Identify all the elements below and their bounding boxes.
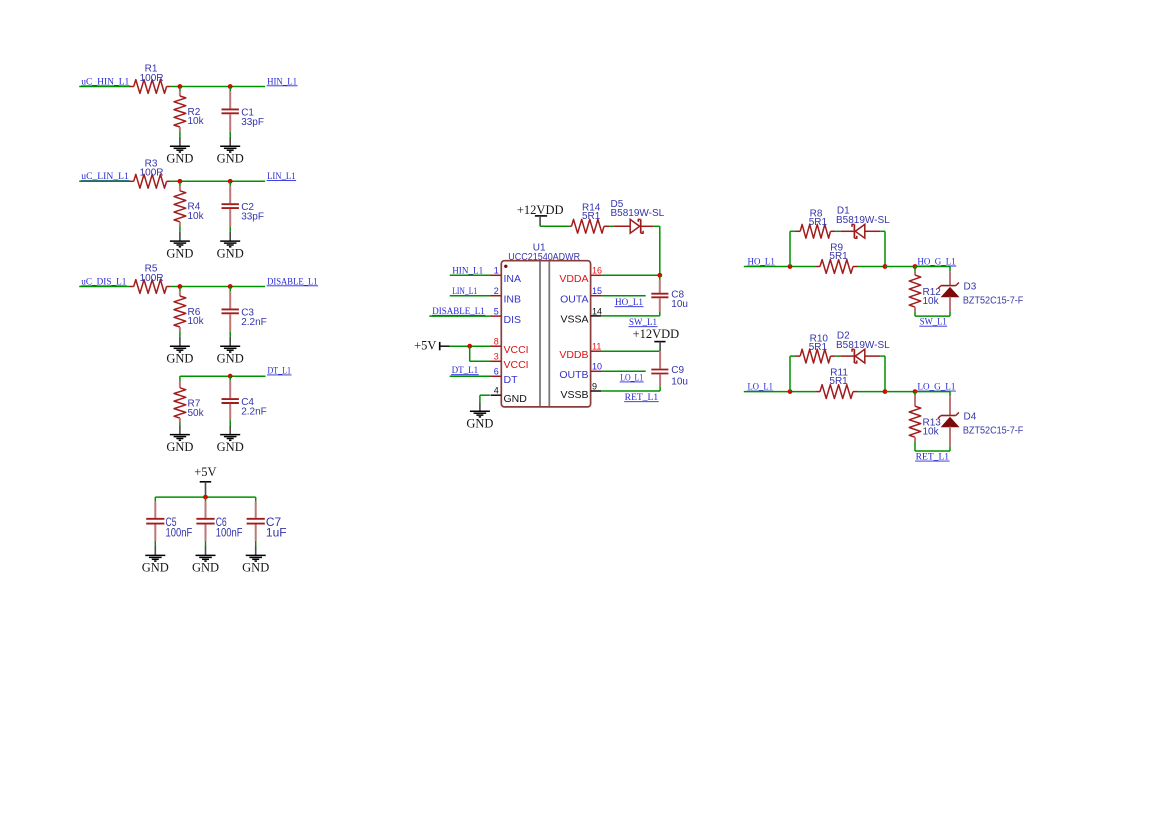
wire [479,395,481,402]
resistor R11 [815,391,820,393]
wire [885,391,915,393]
resistor R13 [914,392,916,397]
ground [170,145,190,147]
wire [601,315,660,317]
svg-text:+12VDD: +12VDD [633,327,680,341]
svg-text:INA: INA [504,273,522,285]
svg-text:GND: GND [192,561,219,575]
wire [835,355,840,357]
svg-text:UCC21540ADWR: UCC21540ADWR [508,252,580,263]
svg-text:10k: 10k [188,116,205,127]
svg-text:C9: C9 [671,365,684,376]
svg-text:15: 15 [592,286,602,296]
wire [789,356,791,392]
svg-text:GND: GND [217,352,244,366]
junction [228,179,233,184]
svg-text:6: 6 [494,367,499,377]
pin 15 OUTA [591,295,601,297]
svg-text:1uF: 1uF [266,525,287,539]
diode D5 B5819W-SL [614,225,630,227]
wire [789,231,791,266]
capacitor C4 [229,376,231,381]
ground [479,403,481,412]
svg-text:33pF: 33pF [241,117,264,128]
resistor R7 [179,376,181,381]
wire [790,230,796,232]
wire [790,355,796,357]
svg-text:1: 1 [494,266,499,276]
ground [220,240,240,242]
svg-text:14: 14 [592,306,602,316]
wire [880,230,885,232]
svg-text:100nF: 100nF [216,525,243,539]
wire [155,496,255,498]
capacitor C6 [205,497,207,502]
junction [788,264,793,269]
resistor R10 [796,355,801,357]
resistor R9 [815,266,820,268]
svg-text:5R1: 5R1 [829,376,848,387]
pin 16 VDDA [591,274,601,276]
capacitor C1 [229,87,231,92]
svg-text:GND: GND [166,352,193,366]
svg-text:11: 11 [592,342,601,352]
ground [246,554,266,556]
svg-text:GND: GND [142,561,169,575]
svg-text:3: 3 [494,352,499,362]
wire [79,286,129,288]
junction [883,264,888,269]
ground [220,145,240,147]
junction [178,284,183,289]
svg-text:100R: 100R [140,168,164,179]
wire [858,391,886,393]
junction [788,389,793,394]
wire [171,286,266,288]
svg-text:OUTA: OUTA [560,294,588,306]
svg-text:VCCI: VCCI [504,359,529,371]
svg-text:100R: 100R [140,273,164,284]
svg-text:10k: 10k [188,211,205,222]
wire [880,355,885,357]
wire [654,225,660,227]
junction [913,389,918,394]
svg-text:5R1: 5R1 [829,251,848,262]
svg-text:10: 10 [592,362,602,372]
ground [170,345,190,347]
ground [170,434,190,436]
wire [540,225,570,227]
svg-text:GND: GND [166,246,193,260]
resistor R1 [130,86,134,88]
svg-text:B5819W-SL: B5819W-SL [611,208,665,219]
junction [657,273,662,278]
capacitor C2 [229,181,231,186]
svg-text:16: 16 [592,266,602,276]
svg-text:DIS: DIS [504,314,522,326]
svg-text:100R: 100R [140,73,164,84]
resistor R2 [179,87,181,92]
junction [467,344,472,349]
svg-text:B5819W-SL: B5819W-SL [836,340,890,351]
pin 3 VCCI [491,360,502,362]
svg-text:VCCI: VCCI [504,344,529,356]
capacitor C5 [154,497,156,502]
wire [79,86,129,88]
diode D1 B5819W-SL [840,230,853,232]
wire [610,225,614,227]
wire [601,390,660,392]
pin 9 VSSB [591,390,601,392]
wire [450,375,491,377]
svg-text:10k: 10k [923,296,940,307]
wire [744,391,816,393]
wire [171,86,266,88]
pin 8 VCCI [491,345,502,347]
junction [228,374,233,379]
wire [601,295,646,297]
pin 10 OUTB [591,370,601,372]
capacitor C7 [255,497,257,502]
svg-text:VSSB: VSSB [560,389,588,401]
svg-text:GND: GND [217,440,244,454]
svg-text:INB: INB [504,294,522,306]
junction [178,179,183,184]
resistor R3 [130,180,134,182]
svg-text:100nF: 100nF [166,525,193,539]
svg-text:10u: 10u [671,299,688,310]
resistor R5 [130,286,134,288]
wire [450,295,491,297]
svg-text:GND: GND [217,152,244,166]
svg-text:+5V: +5V [414,339,436,353]
pin 4 GND [491,394,502,396]
wire [450,274,491,276]
wire [469,346,471,361]
svg-text:10k: 10k [188,316,205,327]
svg-text:5R1: 5R1 [809,342,828,353]
pin 1 INA [491,274,502,276]
resistor R8 [796,230,801,232]
svg-text:33pF: 33pF [241,212,264,223]
svg-text:VDDA: VDDA [559,273,588,285]
wire [744,266,816,268]
wire [450,345,491,347]
svg-text:OUTB: OUTB [559,369,588,381]
ground [145,554,165,556]
svg-text:GND: GND [466,416,493,430]
svg-text:DT: DT [504,374,519,386]
svg-text:GND: GND [217,246,244,260]
wire [480,394,490,396]
ground [220,434,240,436]
svg-text:VSSA: VSSA [560,314,588,326]
svg-text:D4: D4 [964,412,977,423]
svg-text:GND: GND [504,393,528,405]
ground [170,240,190,242]
ground [196,554,216,556]
svg-text:GND: GND [242,561,269,575]
svg-text:2: 2 [494,286,499,296]
capacitor C9 [659,351,661,368]
junction [913,264,918,269]
wire [79,180,129,182]
resistor R6 [179,287,181,292]
svg-text:+5V: +5V [194,465,216,479]
wire [884,356,886,392]
svg-text:10u: 10u [671,377,688,388]
junction [228,84,233,89]
wire [915,450,950,452]
resistor R12 [914,267,916,272]
svg-text:5R1: 5R1 [582,211,601,222]
svg-text:10k: 10k [923,427,940,438]
svg-text:2.2nF: 2.2nF [241,317,267,328]
wire [601,350,660,352]
capacitor C8 [659,275,661,280]
wire [915,266,950,268]
wire [884,231,886,266]
junction [883,389,888,394]
junction [203,495,208,500]
wire [835,230,840,232]
wire [180,375,266,377]
wire [429,315,490,317]
op-amp U1 UCC21540ADWR body [501,261,590,407]
capacitor C3 [229,287,231,292]
resistor R14 [570,225,572,227]
svg-text:B5819W-SL: B5819W-SL [836,215,890,226]
wire [885,266,915,268]
diode D3 BZT52C15-7-F [949,267,951,272]
svg-text:50k: 50k [188,408,205,419]
junction [178,84,183,89]
svg-text:9: 9 [592,381,597,391]
svg-text:GND: GND [166,152,193,166]
wire [915,315,950,317]
resistor R4 [179,181,181,186]
pin 14 VSSA [591,315,601,317]
pin 2 INB [491,295,502,297]
svg-text:GND: GND [166,440,193,454]
svg-text:+12VDD: +12VDD [517,203,564,217]
wire [858,266,886,268]
wire [470,360,491,362]
svg-text:VDDB: VDDB [559,349,588,361]
svg-text:4: 4 [494,386,499,396]
wire [601,370,646,372]
junction [228,284,233,289]
svg-text:5R1: 5R1 [809,217,828,228]
wire [601,274,660,276]
svg-text:2.2nF: 2.2nF [241,406,267,417]
pin 6 DT [491,375,502,377]
svg-text:8: 8 [494,337,499,347]
svg-text:5: 5 [494,307,499,317]
diode D2 B5819W-SL [840,355,853,357]
pin 11 VDDB [591,350,601,352]
diode D4 BZT52C15-7-F [949,392,951,397]
wire [171,180,266,182]
svg-text:BZT52C15-7-F: BZT52C15-7-F [963,295,1023,306]
pin 5 DIS [491,315,502,317]
svg-text:BZT52C15-7-F: BZT52C15-7-F [963,425,1023,436]
wire [915,391,950,393]
svg-text:D3: D3 [964,282,977,293]
ground [220,345,240,347]
